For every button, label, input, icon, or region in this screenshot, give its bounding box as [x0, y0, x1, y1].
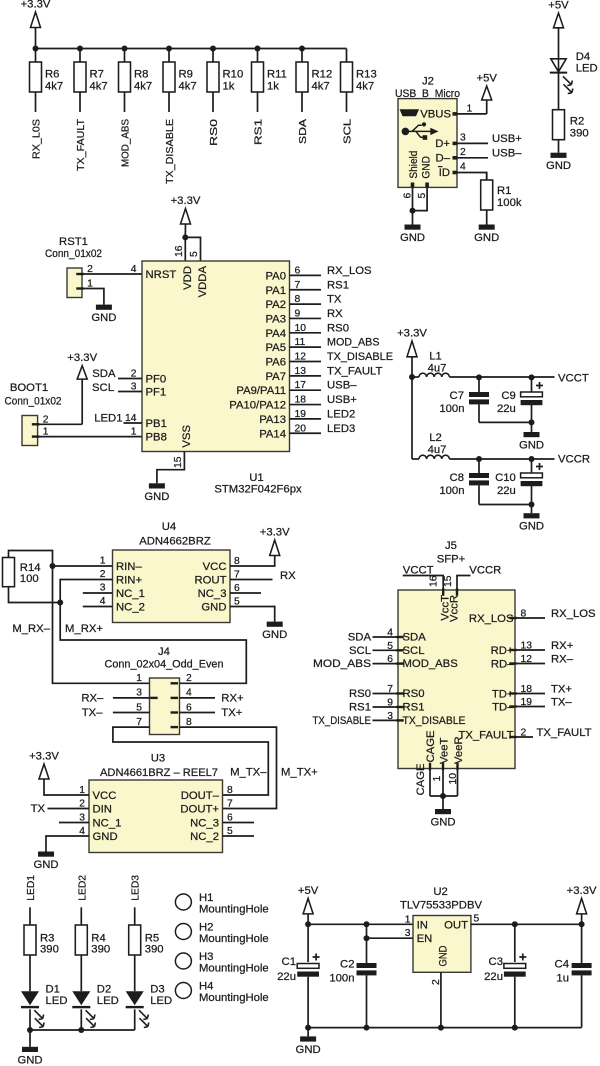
svg-text:RX_LOS: RX_LOS [469, 613, 514, 625]
svg-text:VDDA: VDDA [197, 266, 209, 298]
svg-text:SCL: SCL [92, 382, 114, 394]
svg-text:4k7: 4k7 [90, 81, 108, 93]
wire VDD/VDDA [184, 237, 186, 261]
led D3 [126, 991, 144, 1005]
svg-text:GND: GND [519, 521, 544, 533]
wire D3 cathode [134, 1009, 136, 1030]
svg-text:100n: 100n [439, 485, 464, 497]
resistor R7 4k7 with net TX_FAULT [77, 46, 83, 52]
junction gnd C3 [512, 1025, 518, 1031]
svg-text:C10: C10 [495, 472, 516, 484]
mounting hole H4 [175, 983, 191, 999]
svg-text:STM32F042F6px: STM32F042F6px [214, 484, 302, 496]
ground U1 [149, 483, 165, 488]
power +3.3V U4 [270, 540, 280, 556]
svg-text:4k7: 4k7 [312, 81, 330, 93]
svg-text:RD+: RD+ [491, 645, 514, 657]
svg-text:J4: J4 [158, 646, 170, 658]
svg-text:100: 100 [20, 573, 39, 585]
svg-text:NC_2: NC_2 [190, 831, 219, 843]
ground RST1 [96, 305, 112, 310]
svg-text:C7: C7 [450, 390, 464, 402]
svg-text:R10: R10 [223, 69, 244, 81]
svg-text:D3: D3 [150, 984, 164, 996]
svg-text:VeeT: VeeT [438, 738, 450, 764]
svg-text:390: 390 [40, 944, 59, 956]
power +3.3V U1 [181, 209, 191, 225]
svg-text:+5V: +5V [548, 0, 569, 12]
svg-text:TX+: TX+ [221, 707, 242, 719]
svg-text:3: 3 [405, 928, 411, 939]
svg-text:OUT: OUT [444, 919, 468, 931]
svg-text:MountingHole: MountingHole [199, 933, 269, 945]
svg-text:2: 2 [186, 673, 192, 684]
svg-text:100n: 100n [439, 403, 464, 415]
resistor R4 390 [75, 925, 87, 955]
svg-text:MOD_ABS: MOD_ABS [403, 658, 459, 670]
svg-text:1k: 1k [267, 81, 279, 93]
net label LED1 at PB1 [124, 422, 143, 424]
led D1 [21, 991, 39, 1005]
svg-text:15: 15 [443, 575, 454, 587]
power +5V at D4 [554, 13, 564, 28]
svg-text:PB8: PB8 [146, 432, 167, 444]
junction gnd C2 [364, 1025, 370, 1031]
ic U2 body [413, 916, 471, 973]
svg-text:PA14: PA14 [259, 428, 286, 440]
wire output rail [471, 923, 582, 925]
pin 4 SDA J5 [396, 636, 404, 638]
svg-text:PA7: PA7 [265, 371, 286, 383]
wire M_RX+ to J4 pin2 [60, 603, 246, 684]
svg-text:4: 4 [100, 596, 106, 607]
svg-text:+5V: +5V [298, 885, 319, 897]
svg-text:+3.3V: +3.3V [260, 527, 290, 539]
resistor R5 390 [129, 925, 141, 955]
svg-text:PA13: PA13 [259, 414, 286, 426]
connector BOOT1 body [22, 416, 38, 446]
svg-text:1: 1 [432, 776, 443, 782]
svg-text:TX_DISABLE: TX_DISABLE [165, 119, 176, 184]
svg-text:DIN: DIN [93, 804, 112, 816]
resistor R11 1k with net RS1 [255, 46, 261, 52]
junction RIN- node [50, 563, 56, 569]
svg-text:TX_FAULT: TX_FAULT [537, 727, 592, 739]
resistor R8 4k7 with net MOD_ABS [122, 46, 128, 52]
resistor R1 100k [486, 173, 488, 181]
svg-text:VCCT: VCCT [558, 372, 589, 384]
pin 8 J4 nub [171, 726, 179, 728]
svg-text:Conn_02x04_Odd_Even: Conn_02x04_Odd_Even [105, 659, 224, 671]
junction J5 gnd [440, 793, 446, 799]
junction C2 top [364, 921, 370, 927]
junction J2 gnd [410, 208, 416, 214]
usb receptacle icon [400, 109, 420, 116]
svg-text:RIN–: RIN– [116, 561, 142, 573]
svg-text:ADN4662BRZ: ADN4662BRZ [139, 536, 211, 548]
svg-text:U2: U2 [433, 886, 447, 898]
svg-text:Conn_01x02: Conn_01x02 [5, 396, 62, 408]
svg-text:SDA: SDA [348, 632, 372, 644]
svg-text:3: 3 [460, 132, 466, 143]
power +3.3V pull-up rail [31, 12, 41, 28]
power +5V at J2 [482, 86, 492, 100]
inductor L2 4u7 [419, 455, 449, 459]
svg-text:TD–: TD– [492, 701, 514, 713]
ground R2 [558, 140, 560, 153]
svg-text:GND: GND [201, 602, 226, 614]
svg-text:MOD_ABS: MOD_ABS [327, 337, 380, 349]
wire R5-D3 [134, 955, 136, 991]
connector RST1 body [67, 268, 82, 298]
svg-text:PA6: PA6 [265, 357, 286, 369]
svg-text:GND: GND [262, 629, 287, 641]
ground U3 [46, 836, 89, 852]
svg-text:J2: J2 [422, 76, 434, 88]
svg-text:RS0: RS0 [327, 322, 349, 334]
svg-text:1k: 1k [223, 81, 235, 93]
pin 3 TX_DISABLE J5 [396, 719, 404, 721]
svg-text:22u: 22u [497, 403, 516, 415]
svg-text:MountingHole: MountingHole [199, 963, 269, 975]
svg-text:R2: R2 [570, 116, 584, 128]
capacitor C2 100n [366, 938, 368, 963]
svg-text:DOUT–: DOUT– [181, 790, 220, 802]
svg-text:GND: GND [144, 491, 169, 503]
svg-text:6: 6 [186, 702, 192, 713]
pin VeeT stub [442, 763, 444, 771]
mounting hole H1 [175, 894, 191, 910]
wire C8-C10 bottom [479, 504, 532, 506]
svg-text:NC_3: NC_3 [198, 588, 227, 600]
wire NC_1 stub [59, 822, 89, 824]
wire LED1 [29, 907, 31, 925]
svg-text:USB+: USB+ [327, 394, 357, 406]
svg-text:VCCR: VCCR [469, 565, 501, 577]
svg-text:USB+: USB+ [492, 133, 522, 145]
svg-text:VSS: VSS [181, 425, 193, 448]
svg-text:D–: D– [436, 152, 451, 164]
junction C10 bottom [529, 502, 535, 508]
svg-text:R1: R1 [497, 185, 511, 197]
svg-text:GND: GND [474, 232, 499, 244]
wire EN [367, 924, 414, 938]
svg-text:MountingHole: MountingHole [199, 992, 269, 1004]
svg-text:MountingHole: MountingHole [199, 904, 269, 916]
svg-text:CAGE: CAGE [425, 730, 437, 762]
svg-text:PF1: PF1 [146, 387, 167, 399]
pin 13 RD+ J5 net RX+ [509, 649, 517, 651]
pin 2 D- [453, 156, 458, 160]
svg-text:4k7: 4k7 [356, 81, 374, 93]
junction led bus D2 [78, 1027, 84, 1033]
svg-text:C8: C8 [450, 472, 464, 484]
svg-text:DOUT+: DOUT+ [180, 804, 219, 816]
svg-text:PA5: PA5 [265, 342, 286, 354]
svg-text:ROUT: ROUT [194, 575, 226, 587]
svg-text:1: 1 [405, 914, 411, 925]
svg-text:NC_2: NC_2 [116, 602, 145, 614]
svg-text:LED: LED [46, 995, 68, 1007]
svg-text:C4: C4 [555, 959, 569, 971]
svg-text:PF0: PF0 [146, 374, 167, 386]
wire NC_3 stub U3 [223, 822, 255, 824]
pin 12 RD– J5 net RX– [509, 662, 517, 664]
mounting hole H3 [175, 953, 191, 969]
pin 6 MOD_ABS J5 [396, 662, 404, 664]
junction C7 top [476, 374, 482, 380]
svg-text:4u7: 4u7 [428, 444, 447, 456]
wire J4 pin8 to U3 DOUT+ [180, 727, 277, 808]
capacitor C10 22u [531, 459, 533, 473]
svg-text:GND: GND [91, 312, 116, 324]
pin 18 TD+ J5 net TX+ [509, 692, 517, 694]
svg-text:VBUS: VBUS [420, 109, 451, 121]
pin 5 SCL J5 [396, 649, 404, 651]
junction C8 top [476, 456, 482, 462]
svg-text:D4: D4 [576, 51, 590, 63]
power +5V U2 [303, 898, 313, 914]
pin 7 RS0 J5 [396, 692, 404, 694]
wire NC_3 stub [230, 592, 261, 594]
svg-text:PA2: PA2 [265, 299, 286, 311]
svg-text:TX_FAULT: TX_FAULT [458, 730, 513, 742]
wire RIN- [53, 565, 113, 567]
pin 5 GND stub [425, 183, 429, 188]
svg-text:4: 4 [186, 688, 192, 699]
svg-text:10: 10 [448, 773, 459, 785]
svg-text:1u: 1u [556, 973, 569, 985]
svg-text:SCL: SCL [403, 645, 425, 657]
svg-text:GND: GND [400, 232, 425, 244]
svg-text:2: 2 [431, 979, 442, 985]
svg-text:390: 390 [145, 944, 164, 956]
svg-text:VCCR: VCCR [558, 454, 590, 466]
svg-text:MOD_ABS: MOD_ABS [121, 119, 132, 167]
svg-text:H3: H3 [199, 951, 213, 963]
svg-text:R11: R11 [267, 69, 287, 81]
wire VCCT rail [412, 376, 419, 378]
svg-text:16: 16 [174, 245, 185, 257]
svg-text:RX+: RX+ [551, 640, 574, 652]
svg-text:VCC: VCC [93, 790, 117, 802]
svg-text:GND: GND [17, 1054, 42, 1066]
svg-text:J5: J5 [445, 540, 457, 552]
svg-text:H1: H1 [199, 892, 213, 904]
pin 3 D+ [453, 142, 458, 146]
svg-text:SDA: SDA [298, 119, 309, 144]
svg-text:+3.3V: +3.3V [171, 195, 201, 207]
svg-text:H2: H2 [199, 922, 213, 934]
svg-text:1: 1 [136, 673, 142, 684]
svg-text:NC_3: NC_3 [190, 818, 219, 830]
svg-text:H4: H4 [199, 981, 213, 993]
svg-text:1: 1 [467, 103, 473, 114]
wire R4-D2 [80, 955, 82, 991]
pin 6 Shield stub [411, 183, 415, 188]
svg-text:RX+: RX+ [221, 693, 244, 705]
resistor R10 1k with net RS0 [210, 46, 216, 52]
svg-text:15: 15 [173, 456, 184, 468]
svg-text:LED3: LED3 [131, 875, 142, 901]
svg-text:Conn_01x02: Conn_01x02 [45, 248, 102, 260]
svg-text:4: 4 [131, 264, 137, 275]
svg-text:PA4: PA4 [265, 328, 286, 340]
svg-text:VeeR: VeeR [453, 736, 465, 764]
pin 1 CAGE stub [429, 763, 431, 771]
pin 3 J4 nub [150, 697, 158, 699]
svg-text:TX_DISABLE: TX_DISABLE [327, 351, 393, 363]
svg-text:RST1: RST1 [59, 236, 88, 248]
junction VDD [182, 234, 188, 240]
wire D1 cathode [29, 1009, 31, 1030]
wire LED2 [80, 907, 82, 925]
svg-text:+3.3V: +3.3V [567, 885, 597, 897]
pin 6 J4 nub [171, 711, 179, 713]
junction C1 top [305, 921, 311, 927]
pin 1 VBUS [453, 112, 458, 116]
svg-text:+3.3V: +3.3V [397, 328, 427, 340]
svg-text:ID: ID [439, 167, 450, 179]
svg-text:TX+: TX+ [551, 684, 572, 696]
wire R3-D1 [29, 955, 31, 991]
junction L1 [409, 374, 415, 380]
svg-text:1: 1 [100, 556, 106, 567]
svg-text:5: 5 [417, 193, 428, 199]
svg-text:RS1: RS1 [403, 702, 425, 714]
svg-text:RX–: RX– [81, 693, 104, 705]
wire D2 cathode [80, 1009, 82, 1030]
svg-text:TX_DISABLE: TX_DISABLE [403, 715, 466, 727]
svg-text:390: 390 [570, 128, 589, 140]
svg-text:1: 1 [131, 427, 137, 438]
svg-text:GND: GND [296, 1044, 321, 1056]
svg-text:4k7: 4k7 [45, 81, 63, 93]
resistor R6 4k7 with net RX_L0S [33, 46, 39, 52]
svg-text:LED1: LED1 [94, 412, 122, 424]
ic U4 body [113, 550, 231, 623]
svg-text:5: 5 [189, 251, 200, 257]
svg-text:C2: C2 [340, 959, 354, 971]
svg-text:RS0: RS0 [209, 119, 220, 146]
junction C10 top [529, 456, 535, 462]
pin 4 J4 nub [171, 697, 179, 699]
ic U3 body [89, 780, 223, 853]
svg-text:NRST: NRST [146, 269, 177, 281]
svg-text:GND: GND [519, 440, 544, 452]
inductor L1 4u7 [419, 373, 449, 377]
ic U1 body [142, 261, 290, 452]
ground led bank [29, 1030, 31, 1047]
ground VCCT filter [531, 422, 533, 432]
capacitor C8 100n [478, 459, 480, 473]
svg-text:R6: R6 [45, 69, 59, 81]
junction gnd C1 [305, 1025, 311, 1031]
svg-text:ADN4661BRZ – REEL7: ADN4661BRZ – REEL7 [100, 767, 218, 779]
svg-text:CAGE: CAGE [415, 763, 427, 795]
net label TX at DIN [48, 808, 90, 810]
svg-text:RS1: RS1 [327, 279, 349, 291]
svg-text:LED: LED [97, 995, 119, 1007]
wire L2 branch [411, 377, 413, 459]
svg-text:PA1: PA1 [265, 285, 286, 297]
svg-text:U1: U1 [249, 472, 263, 484]
svg-text:RX_LOS: RX_LOS [327, 265, 372, 277]
usb trident icon [402, 128, 410, 136]
svg-text:VCC: VCC [203, 561, 227, 573]
svg-text:4: 4 [460, 162, 466, 173]
connector J2 body [398, 99, 457, 188]
svg-text:U4: U4 [162, 521, 176, 533]
svg-text:8: 8 [227, 785, 233, 796]
wire LED3 [134, 907, 136, 925]
wire C7-C9 bottom [479, 421, 532, 423]
svg-text:BOOT1: BOOT1 [10, 382, 48, 394]
capacitor C4 1u [581, 924, 583, 963]
svg-text:22u: 22u [484, 971, 503, 983]
svg-text:Shield: Shield [408, 151, 420, 179]
svg-text:RX–: RX– [551, 654, 574, 666]
pin 3 wire RX- [113, 697, 150, 699]
svg-text:LED2: LED2 [327, 408, 355, 420]
svg-text:LED: LED [150, 995, 172, 1007]
svg-text:16: 16 [429, 575, 440, 587]
svg-text:R12: R12 [312, 69, 333, 81]
svg-text:GND: GND [93, 831, 118, 843]
svg-text:RX_LOS: RX_LOS [551, 608, 596, 620]
svg-text:USB–: USB– [327, 380, 357, 392]
junction led bus D1 [27, 1027, 33, 1033]
svg-text:VccR: VccR [449, 595, 461, 622]
ground U2 rail [307, 1028, 309, 1037]
svg-text:TX: TX [327, 294, 342, 306]
pin 4 ID [453, 171, 458, 175]
svg-text:390: 390 [91, 944, 110, 956]
svg-text:PA0: PA0 [265, 270, 286, 282]
svg-text:RS0: RS0 [403, 688, 425, 700]
wire ground rail [308, 1027, 581, 1029]
resistor R3 390 [24, 925, 36, 955]
ground U4 [230, 607, 275, 622]
svg-text:+3.3V: +3.3V [29, 751, 59, 763]
svg-text:PA9/PA11: PA9/PA11 [236, 385, 286, 397]
ground VCCR filter [531, 505, 533, 514]
junction C3 top [512, 921, 518, 927]
svg-text:TX–: TX– [82, 707, 103, 719]
svg-text:22u: 22u [277, 971, 296, 983]
svg-text:4u7: 4u7 [428, 363, 447, 375]
ground J2 [412, 211, 414, 225]
svg-text:PA3: PA3 [265, 313, 286, 325]
wire J4 pin7 to U3 DOUT- [113, 727, 268, 795]
svg-text:D1: D1 [46, 984, 60, 996]
capacitor C7 100n [478, 377, 480, 392]
pin 2 TX_FAULT J5 net TX_FAULT [509, 736, 517, 738]
junction RIN+ node [57, 600, 63, 606]
connector J4 body [150, 678, 180, 735]
svg-text:100n: 100n [329, 973, 354, 985]
svg-text:RX: RX [280, 570, 296, 582]
pin 10 VeeR stub [456, 763, 458, 771]
svg-text:PB1: PB1 [146, 418, 167, 430]
wire J5 bottom [430, 795, 458, 797]
svg-text:2: 2 [460, 147, 466, 158]
svg-text:L2: L2 [429, 432, 442, 444]
ground R1 [479, 225, 495, 230]
svg-text:RS1: RS1 [349, 702, 371, 714]
svg-text:2: 2 [100, 569, 106, 580]
svg-text:C9: C9 [501, 390, 515, 402]
